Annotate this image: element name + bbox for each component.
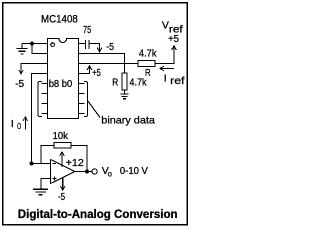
ground (op-amp): [33, 189, 48, 195]
svg-text:binary data: binary data: [101, 115, 155, 127]
terminal: output circle: [92, 169, 97, 174]
svg-text:+5: +5: [168, 33, 179, 45]
wire: inverting input: [32, 163, 51, 165]
svg-text:I: I: [164, 73, 167, 85]
node: inverting input junction: [30, 162, 34, 166]
svg-text:-5: -5: [58, 191, 65, 203]
wire: junction down to pin2: [32, 44, 48, 54]
svg-text:R: R: [112, 76, 118, 88]
op-amp plus symbol: [52, 176, 56, 180]
bracket right: [84, 82, 88, 117]
svg-text:0-10 V: 0-10 V: [120, 165, 148, 177]
wire: R1 to +5 Vref: [155, 53, 174, 64]
svg-text:I: I: [11, 118, 14, 130]
supply arrow +5 VCC (up): [87, 66, 92, 70]
svg-text:ref: ref: [170, 76, 184, 87]
current arrow Iref (left): [160, 66, 174, 71]
wire: feedback right leg: [71, 145, 87, 171]
wire: cap to -5 arrow: [89, 44, 99, 48]
bracket left: [38, 82, 42, 117]
svg-text:4.7k: 4.7k: [139, 47, 157, 59]
wire: pointer to binary data: [88, 101, 101, 118]
node: output junction: [85, 170, 89, 174]
svg-text:+12: +12: [66, 157, 84, 169]
wire: pin14 Vref+ to R1: [79, 63, 139, 65]
wire: feedback left leg: [41, 145, 54, 163]
svg-text:b8 b0: b8 b0: [49, 78, 73, 90]
supply arrow -5 (cap): [97, 48, 102, 52]
wire: pin13 VCC: [79, 70, 90, 74]
svg-text:Digital-to-Analog Conversion: Digital-to-Analog Conversion: [18, 209, 178, 221]
digital input pins right (ticks): [79, 84, 85, 114]
wire: pin4 Io down to op-amp: [32, 74, 48, 164]
svg-text:-5: -5: [106, 41, 114, 53]
node: gnd junction: [30, 42, 34, 46]
ground (below R2): [120, 94, 128, 99]
wire: pin3 VEE: [21, 64, 48, 70]
wire: op-amp output: [75, 171, 92, 173]
svg-text:4.7k: 4.7k: [129, 76, 147, 88]
resistor R2 4.7k (vertical): [122, 73, 127, 90]
supply arrow +5 Vref (up): [172, 46, 177, 53]
op-amp U2: [51, 160, 76, 184]
svg-text:10k: 10k: [53, 130, 69, 142]
wire: pin15 to R ground: [79, 54, 125, 74]
wire: R2 to ground: [124, 90, 126, 94]
wire: pin1 (gnd) to IC: [22, 43, 48, 45]
svg-text:MC1408: MC1408: [41, 13, 78, 25]
pin 1 indicator: [51, 43, 55, 47]
wire: pin16 to compensation cap: [79, 43, 86, 45]
capacitor C1 75pF: [86, 40, 89, 49]
svg-text:75: 75: [83, 24, 91, 36]
svg-text:o: o: [108, 170, 112, 179]
svg-text:V: V: [162, 19, 169, 31]
svg-text:O: O: [17, 122, 21, 131]
op-amp minus symbol: [52, 163, 56, 165]
svg-text:-5: -5: [15, 78, 24, 90]
svg-text:+5: +5: [92, 67, 101, 79]
current arrow Io (up): [23, 117, 28, 130]
ground (top left): [17, 44, 28, 55]
IC U1 MC1408: [48, 39, 79, 119]
resistor R3 10k feedback: [54, 142, 71, 148]
supply arrow +12 (up): [60, 152, 65, 167]
digital input pins left (ticks): [42, 84, 48, 114]
supply arrow -5 (left): [19, 64, 24, 75]
resistor R1 4.7k (horizontal): [138, 61, 155, 67]
supply arrow -5 (down): [60, 178, 65, 191]
wire: non-inverting input to ground: [41, 179, 51, 190]
